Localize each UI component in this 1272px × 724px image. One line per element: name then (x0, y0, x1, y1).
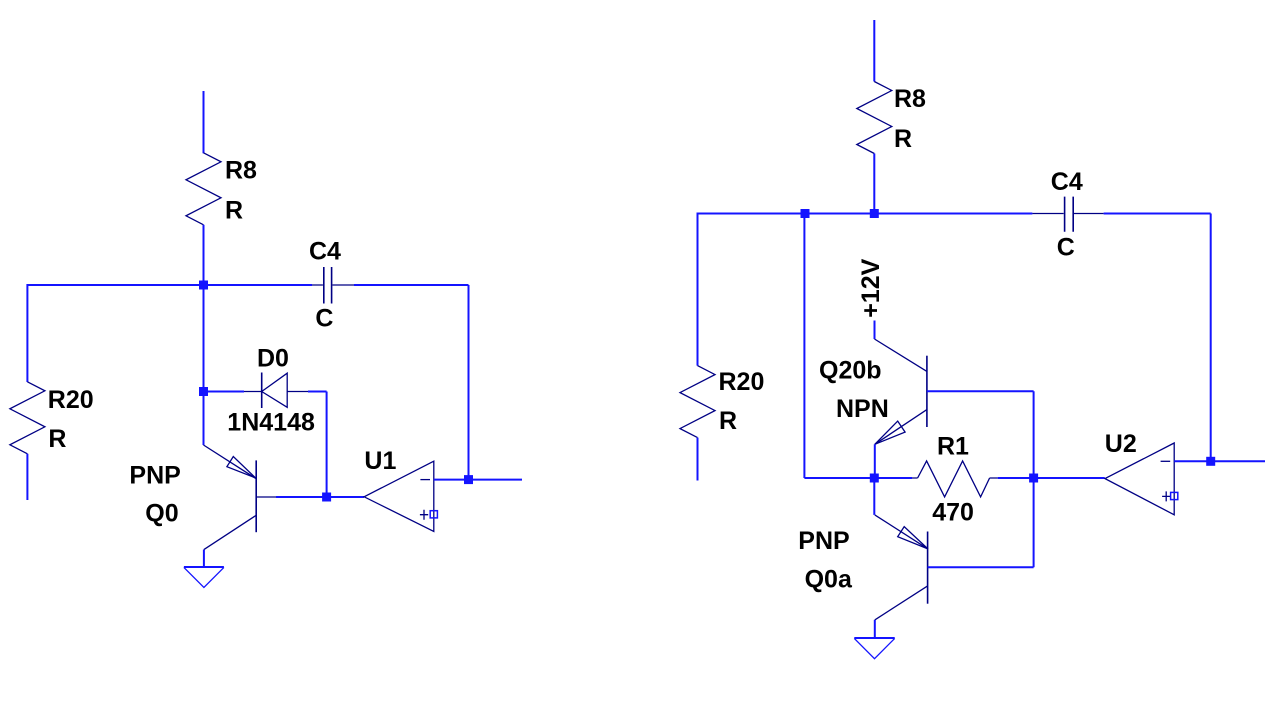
wire (327, 496, 364, 498)
svg-text:R20: R20 (719, 368, 765, 396)
svg-text:R: R (894, 125, 912, 153)
svg-text:1N4148: 1N4148 (227, 408, 315, 436)
svg-text:R1: R1 (937, 432, 969, 460)
svg-text:NPN: NPN (836, 395, 889, 423)
resistor R8 (186, 153, 221, 225)
wire (874, 620, 876, 638)
wire (874, 321, 876, 340)
wire (1033, 391, 1035, 567)
svg-text:R8: R8 (225, 157, 257, 185)
svg-text:R: R (48, 425, 66, 453)
svg-text:R: R (719, 407, 737, 435)
svg-text:+12V: +12V (857, 258, 885, 317)
wire (928, 566, 1034, 568)
svg-text:C4: C4 (1051, 168, 1083, 196)
op-amp U1 (364, 461, 437, 531)
svg-text:C: C (315, 304, 333, 332)
wire (203, 285, 205, 445)
wire (697, 213, 699, 366)
junction node (464, 475, 473, 484)
svg-text:PNP: PNP (129, 461, 180, 489)
wire (804, 477, 874, 479)
transistor Q20b (875, 339, 927, 444)
wire (469, 479, 523, 481)
wire (927, 390, 1034, 392)
junction node (199, 387, 208, 396)
svg-text:Q0a: Q0a (805, 566, 853, 594)
wire (873, 478, 875, 515)
wire (1210, 214, 1212, 462)
wire (1174, 460, 1211, 462)
svg-text:R8: R8 (894, 85, 926, 113)
svg-text:C: C (1057, 233, 1075, 261)
junction node (1029, 474, 1038, 483)
wire (874, 444, 876, 478)
wire (203, 91, 205, 153)
svg-text:U2: U2 (1105, 430, 1137, 458)
wire (874, 477, 912, 479)
wire (1034, 477, 1105, 479)
junction node (801, 209, 810, 218)
junction node (1206, 457, 1215, 466)
ground (right) (854, 638, 894, 659)
wire (203, 225, 205, 285)
junction node (199, 281, 208, 290)
capacitor C4 (312, 267, 354, 304)
wire (204, 391, 245, 393)
wire (276, 496, 327, 498)
svg-text:R: R (225, 197, 243, 225)
resistor R20 (10, 382, 45, 454)
wire (998, 477, 1034, 479)
resistor R1 (912, 461, 998, 497)
wire (698, 213, 1033, 215)
wire (1104, 213, 1211, 215)
ground (184, 567, 224, 588)
junction node (322, 493, 331, 502)
svg-text:Q20b: Q20b (819, 357, 882, 385)
wire (26, 284, 28, 382)
wire (27, 284, 312, 286)
junction node (870, 209, 879, 218)
diode D0 (244, 373, 308, 409)
svg-text:470: 470 (932, 499, 974, 527)
svg-text:U1: U1 (364, 447, 396, 475)
wire (326, 392, 328, 498)
resistor R20 (right) (680, 366, 715, 438)
wire (873, 20, 875, 82)
wire (697, 438, 699, 481)
wire (468, 285, 470, 480)
wire (26, 454, 28, 500)
transistor Q0a (875, 515, 928, 620)
resistor R8 (right) (857, 82, 892, 154)
wire (1211, 460, 1265, 462)
svg-text:Q0: Q0 (145, 500, 178, 528)
svg-text:C4: C4 (309, 238, 341, 266)
wire (803, 214, 805, 479)
capacitor C4 (right) (1032, 197, 1103, 232)
wire (203, 550, 205, 567)
svg-text:D0: D0 (257, 344, 289, 372)
svg-text:PNP: PNP (798, 527, 849, 555)
wire (873, 154, 875, 214)
junction node (870, 474, 879, 483)
wire (434, 479, 469, 481)
wire (308, 391, 327, 393)
transistor Q0 (204, 445, 277, 550)
wire (354, 284, 469, 286)
svg-text:R20: R20 (48, 386, 94, 414)
op-amp U2 (1105, 443, 1178, 515)
